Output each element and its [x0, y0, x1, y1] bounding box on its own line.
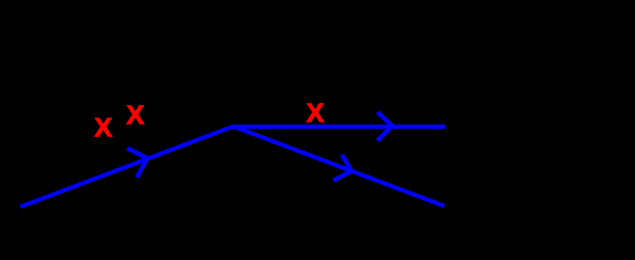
svg-text:X: X [306, 98, 324, 128]
svg-text:X: X [126, 100, 144, 130]
svg-text:X: X [94, 113, 112, 143]
